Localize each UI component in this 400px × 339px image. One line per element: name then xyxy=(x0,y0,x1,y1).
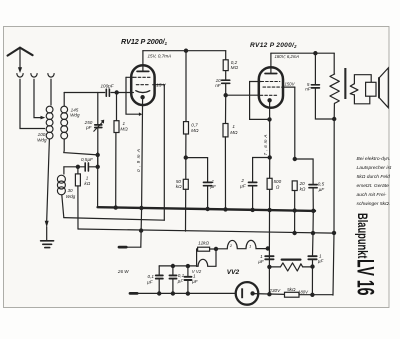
svg-text:kΩ: kΩ xyxy=(176,184,182,189)
border frame xyxy=(4,27,390,308)
rectifier VV2 circle xyxy=(236,282,259,305)
svg-text:26 W: 26 W xyxy=(117,269,129,274)
svg-text:Blaupunkt: Blaupunkt xyxy=(355,213,371,259)
svg-text:1: 1 xyxy=(193,273,196,278)
svg-text:1: 1 xyxy=(249,243,251,248)
node heater/dropper junction xyxy=(268,265,271,268)
svg-text:15 V: 15 V xyxy=(156,82,166,87)
rail R2 xyxy=(78,229,334,233)
wire V2 cathode down xyxy=(268,100,270,294)
node grid1 junction xyxy=(115,91,118,94)
svg-text:kΩ: kΩ xyxy=(300,186,306,191)
svg-text:VV2: VV2 xyxy=(227,269,240,276)
wire down to 1M resistor xyxy=(116,93,118,121)
svg-text:5kΩ durch Feld: 5kΩ durch Feld xyxy=(357,174,391,180)
heater block left vert xyxy=(196,249,198,266)
wire to grid node xyxy=(225,84,227,95)
resistor 0.2 MOhm xyxy=(223,60,228,71)
svg-text:kΩ: kΩ xyxy=(84,181,90,186)
svg-text:0,5: 0,5 xyxy=(318,181,325,186)
node xyxy=(171,264,174,267)
wire 250pF down to 0.5uF line xyxy=(97,152,99,167)
node on R2 xyxy=(293,231,296,234)
node on bus R1 xyxy=(114,206,117,209)
svg-text:180V; 6,2mA: 180V; 6,2mA xyxy=(275,54,300,59)
wire 20k to buses xyxy=(294,191,296,234)
wire primary to 180V line xyxy=(333,103,334,295)
tube V1 grid g1 dashed xyxy=(134,76,151,78)
wire coil L2 bottom xyxy=(64,139,98,155)
node cathode RC junction xyxy=(268,156,271,159)
svg-text:12kΩ: 12kΩ xyxy=(198,241,209,246)
speaker diaphragm xyxy=(378,78,380,98)
wire 150V screen line xyxy=(294,87,296,159)
wire 1M to bus R1 xyxy=(224,137,226,210)
resistor 5kOhm mains xyxy=(285,292,300,297)
resistor 1 MOhm (V2 grid leak) xyxy=(223,124,228,137)
capacitor 2uF xyxy=(249,182,257,185)
bus R1 thick xyxy=(98,207,315,211)
node xyxy=(251,208,254,211)
coil L1 100 Wdg xyxy=(46,106,53,139)
node caps on R4 xyxy=(158,292,161,295)
svg-text:MΩ: MΩ xyxy=(230,130,238,135)
secondary zigzag xyxy=(350,84,358,95)
wire to bus R1 start xyxy=(97,167,99,207)
wire 2uF to bus R1 xyxy=(252,186,254,210)
tube V2 g1 lead xyxy=(250,81,261,83)
svg-text:1: 1 xyxy=(232,124,235,129)
wire grid node down to 1M xyxy=(225,95,227,123)
VV2 cathode bar xyxy=(241,288,243,298)
capacitor 1uF (third) xyxy=(187,266,189,276)
transformer core xyxy=(344,68,346,99)
wire to coupling cap xyxy=(225,71,227,80)
svg-text:100: 100 xyxy=(38,132,46,137)
heater VV2 bump xyxy=(197,259,216,266)
svg-text:MΩ: MΩ xyxy=(191,128,199,133)
secondary loop wires xyxy=(354,75,371,104)
tube V2 grid g1 dashed xyxy=(261,81,280,83)
wire 0.5uF to bus R1 end xyxy=(312,188,314,211)
node bus R1 end xyxy=(312,209,315,212)
svg-text:0,1: 0,1 xyxy=(178,273,185,278)
svg-text:MΩ: MΩ xyxy=(120,126,128,131)
wire V2 grid return xyxy=(250,82,268,120)
tube V2 envelope xyxy=(259,67,283,108)
svg-text:0,1: 0,1 xyxy=(148,274,155,279)
dropper shorting bar xyxy=(282,259,301,261)
svg-text:100pF: 100pF xyxy=(100,84,114,89)
ground xyxy=(41,241,54,248)
svg-text:ersetzt. Geräte: ersetzt. Geräte xyxy=(357,183,390,189)
resistor 500 Ohm xyxy=(267,178,272,189)
node screen junction xyxy=(293,157,296,160)
resistor 0.7 MOhm xyxy=(184,122,189,134)
speaker box xyxy=(366,82,376,96)
node xyxy=(206,207,209,210)
capacitor 0.1uF (first) xyxy=(158,266,160,275)
wire terminal3 down to coil top xyxy=(50,79,52,105)
node cathode on R1 xyxy=(140,206,143,209)
wire terminal2 down to coil tap xyxy=(34,79,41,117)
capacitor 10nF coupling xyxy=(222,80,230,83)
svg-text:RV12 P 2000/2: RV12 P 2000/2 xyxy=(250,42,297,49)
svg-text:2: 2 xyxy=(240,178,244,183)
svg-text:15V, 0,7mA: 15V, 0,7mA xyxy=(148,53,172,58)
svg-text:0,5µF: 0,5µF xyxy=(81,157,94,162)
svg-text:Bei elektro-dyn.: Bei elektro-dyn. xyxy=(357,156,391,162)
capacitor 1uF (V1 cathode circuit) xyxy=(204,182,212,185)
wire to dropper zigzag xyxy=(269,266,280,268)
resistor 1 kOhm xyxy=(75,174,80,186)
svg-text:180V: 180V xyxy=(298,290,309,295)
anode rail V2 xyxy=(271,52,334,54)
node 180V xyxy=(311,293,314,296)
capacitor 100pF xyxy=(106,89,109,96)
wire V1 cathode down xyxy=(141,97,143,247)
svg-text:500: 500 xyxy=(273,179,281,184)
svg-text:auch mit Frei-: auch mit Frei- xyxy=(357,192,387,198)
capacitor 1uF (heater) xyxy=(265,256,273,259)
tube V1 g2 lead to screen line xyxy=(153,84,165,86)
node 500 Ohm on bus R1 xyxy=(268,209,271,212)
capacitor 0.5uF (screen) xyxy=(309,185,317,188)
note text block xyxy=(357,156,392,207)
node on R2 xyxy=(311,232,314,235)
wire zigzag to 1uF node xyxy=(303,266,313,268)
heater chain with bumps 2 and 1 xyxy=(216,240,269,248)
node cathode on R2 xyxy=(140,229,143,232)
wire 1uF to bus R1 xyxy=(207,186,209,209)
node xyxy=(333,117,336,120)
wire top grid line to 100pF xyxy=(64,92,105,94)
wire mains stub xyxy=(126,246,141,248)
wire 1uF down to 180V xyxy=(311,260,313,295)
svg-text:Wdg: Wdg xyxy=(37,138,47,143)
antenna terminal 3 xyxy=(48,74,54,78)
tube V2 g2 lead to 150V line xyxy=(282,86,295,88)
capacitor 250pF variable xyxy=(97,93,99,125)
wire 1k bottom to rail R2 xyxy=(77,186,79,229)
wire 1k top xyxy=(77,167,79,174)
resistor 12 kOhm xyxy=(198,247,210,251)
capacitor 5nF xyxy=(311,85,319,88)
antenna terminal 1 xyxy=(17,74,23,78)
node V2 grid xyxy=(224,94,227,97)
wire block top branch xyxy=(197,248,216,250)
antenna terminal 2 xyxy=(31,74,37,78)
node 5nF tap xyxy=(314,52,317,55)
svg-text:Wdg: Wdg xyxy=(70,112,80,117)
svg-text:0,2: 0,2 xyxy=(231,60,238,65)
tube V2 grid g3 dashed xyxy=(260,94,277,96)
tube V1 cathode cup xyxy=(136,91,150,93)
wire R4 mains line left xyxy=(137,292,236,294)
svg-text:150V: 150V xyxy=(284,82,295,87)
output transformer primary line xyxy=(333,53,335,74)
coil L2 145 Wdg xyxy=(61,106,68,139)
tube V2 cathode node xyxy=(268,99,271,102)
node 0.7M tap xyxy=(184,49,187,52)
anode rail V1 xyxy=(143,50,226,52)
wire grid node to tube V2 xyxy=(226,94,259,96)
svg-text:LV 16: LV 16 xyxy=(352,259,379,296)
wire 0.5uF line xyxy=(64,166,98,168)
speaker cone xyxy=(379,68,388,108)
wire 100pF to tube V1 grid xyxy=(111,92,133,94)
wire 0.5uF line to R2 and down xyxy=(312,211,315,256)
tube V2 anode xyxy=(270,67,272,73)
wire 5k to 180V corner xyxy=(299,294,333,296)
heater block right vert xyxy=(215,249,217,266)
wire coil L3 bottom to rail R3 xyxy=(62,195,64,218)
anode rail corner down xyxy=(225,51,227,60)
wire left end down to coil L3 xyxy=(63,167,65,174)
wire to node xyxy=(185,134,187,158)
capacitor 1uF (output side) xyxy=(308,256,316,259)
svg-text:5kΩ: 5kΩ xyxy=(287,287,296,292)
svg-text:1: 1 xyxy=(86,175,89,180)
tube V1 anode xyxy=(142,66,144,71)
wire branch to 0.5uF xyxy=(295,159,313,184)
wire coil L2 top up to grid line xyxy=(63,93,65,107)
node on R1 xyxy=(293,209,296,212)
svg-text:230V: 230V xyxy=(268,288,281,293)
node 1k tap xyxy=(76,165,79,168)
VV2 anode node xyxy=(251,292,254,295)
antenna symbol xyxy=(8,48,33,56)
svg-text:30: 30 xyxy=(67,188,73,193)
speaker field zigzag primary xyxy=(330,74,339,103)
wire 5nF down xyxy=(314,53,316,84)
node xyxy=(224,208,227,211)
coil L3 30 Wdg xyxy=(57,175,65,195)
wire screen line x164 xyxy=(163,85,165,221)
resistor 20 kOhm xyxy=(292,181,297,191)
wire 5nF to output line xyxy=(315,89,334,120)
wire branch to 1uF xyxy=(186,158,208,182)
svg-text:Lautsprecher ist: Lautsprecher ist xyxy=(357,165,392,171)
tube V2 grid g2 dashed xyxy=(263,86,281,88)
wire 1M to bus R1 xyxy=(115,133,117,208)
svg-text:Ω: Ω xyxy=(276,185,280,190)
wire terminal1 down to coil tap xyxy=(20,79,45,128)
node 0.7M/50k junction xyxy=(184,156,187,159)
capacitor 0.5uF xyxy=(85,163,88,171)
resistor 5kOhm dropper zigzag xyxy=(280,263,302,271)
tube V1 g1 lead xyxy=(126,76,133,78)
node xyxy=(311,265,314,268)
wire node to 50k xyxy=(185,158,187,180)
resistor 50 kOhm xyxy=(183,179,188,189)
wire R6 heater return xyxy=(159,265,196,267)
svg-text:MΩ: MΩ xyxy=(231,65,239,70)
svg-text:0,7: 0,7 xyxy=(191,122,198,127)
resistor 1 MOhm (V1 grid leak) xyxy=(114,121,119,133)
wire branch to 2uF xyxy=(253,158,270,183)
svg-text:1: 1 xyxy=(123,121,126,126)
wire 50k to rail R2 xyxy=(185,189,187,231)
node output line on R2 end xyxy=(332,231,335,234)
rail R3 xyxy=(64,218,165,221)
node xyxy=(268,293,271,296)
wire coil L1 bottom to ground xyxy=(47,139,50,221)
capacitor 0.1uF (second) xyxy=(172,266,174,275)
wire V1 grid return xyxy=(126,77,139,114)
tube V1 envelope xyxy=(131,65,154,105)
svg-text:Wdg: Wdg xyxy=(66,194,76,199)
node grid return to cathode xyxy=(268,118,271,121)
node xyxy=(96,165,99,168)
wire VV2 anode lead / R4 right xyxy=(253,293,285,296)
wire down to 0.7M xyxy=(185,51,187,122)
tube V1 grid g2 dashed xyxy=(136,84,150,86)
svg-text:schwinger 5kΩ.: schwinger 5kΩ. xyxy=(357,201,391,207)
svg-text:RV12 P 2000/1: RV12 P 2000/1 xyxy=(121,37,167,46)
tube V1 cathode node xyxy=(141,96,144,99)
